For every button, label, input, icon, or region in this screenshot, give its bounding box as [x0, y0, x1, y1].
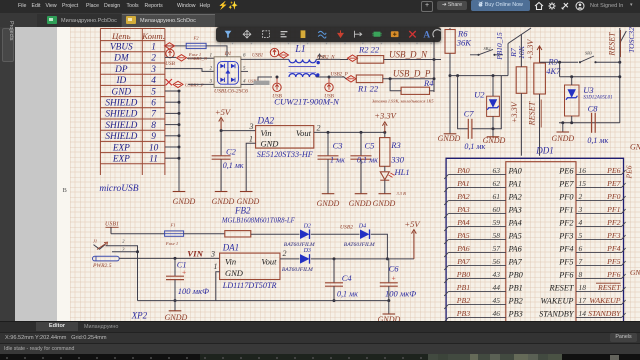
wire RESET vertical right — [620, 28, 627, 123]
wire down to C2 — [220, 131, 222, 156]
svg-text:F1: F1 — [169, 222, 175, 227]
svg-text:R9: R9 — [547, 57, 558, 67]
svg-text:PA6: PA6 — [508, 244, 523, 253]
pin row PB3/STANDBY — [444, 309, 625, 322]
svg-text:45: 45 — [493, 296, 501, 305]
harness entry before R1 — [326, 76, 356, 82]
wire DA2 GND to ground — [246, 143, 255, 191]
pin row PA7/PF5 — [444, 257, 625, 270]
svg-text:PE6: PE6 — [606, 166, 621, 175]
svg-text:U2: U2 — [474, 90, 485, 100]
svg-text:PB0: PB0 — [456, 270, 471, 279]
svg-text:DP: DP — [114, 65, 128, 75]
svg-text:Vout: Vout — [261, 256, 277, 266]
svg-text:GNDD: GNDD — [630, 268, 640, 277]
svg-text:PA4: PA4 — [508, 218, 522, 227]
wire D1 pin4 to L1 lower — [241, 77, 272, 84]
no-ERC cross ID — [166, 79, 172, 85]
svg-text:GNDD: GNDD — [373, 199, 396, 208]
svg-text:GNDD: GNDD — [483, 136, 506, 145]
svg-text:3: 3 — [210, 250, 215, 259]
wire to R4 — [390, 79, 434, 91]
ground GNDD (U3) — [551, 123, 574, 143]
voltage regulator DA1 — [210, 242, 287, 279]
resistor R1 — [356, 75, 383, 93]
svg-text:PE7: PE7 — [558, 179, 574, 188]
svg-text:PF1: PF1 — [606, 205, 621, 214]
svg-text:USBLC6-2SC6: USBLC6-2SC6 — [214, 89, 248, 95]
svg-text:+3.3V: +3.3V — [510, 101, 519, 123]
svg-text:D3: D3 — [303, 248, 311, 254]
power port USB (under L1 right) — [324, 76, 334, 100]
diode D3 — [282, 248, 313, 273]
svg-text:PF3: PF3 — [606, 231, 621, 240]
wire U3 branch — [560, 62, 622, 78]
resistor R2 — [357, 45, 384, 64]
power port +5V (right) — [404, 219, 421, 259]
svg-text:ID: ID — [115, 76, 126, 86]
capacitor C1 — [166, 258, 209, 302]
svg-text:6: 6 — [151, 99, 156, 109]
pin row PA5/PF3 — [444, 231, 625, 244]
ground GNDD (rail left) — [165, 301, 188, 323]
svg-text:S3D12A05L01: S3D12A05L01 — [583, 96, 612, 101]
svg-text:+5V: +5V — [404, 219, 421, 229]
svg-text:DM: DM — [113, 54, 130, 64]
svg-text:PF4: PF4 — [606, 244, 621, 253]
svg-text:GND: GND — [261, 139, 280, 149]
svg-text:PA5: PA5 — [508, 231, 522, 240]
wire J1 pins — [106, 246, 140, 301]
protection diode U3 — [565, 77, 613, 123]
svg-text:STANDBY: STANDBY — [539, 309, 575, 318]
power port USB (upper) — [165, 49, 175, 67]
wire FB2 to D2 — [251, 233, 300, 235]
ground GNDD (table) — [173, 192, 196, 206]
voltage regulator DA2 — [249, 116, 321, 149]
resistor R3 — [380, 132, 405, 166]
resistor R6 — [445, 28, 472, 53]
svg-text:R4: R4 — [423, 78, 434, 88]
svg-text:4K7: 4K7 — [546, 66, 561, 76]
wire bottom loop (U3/C8) — [559, 121, 620, 124]
svg-text:5: 5 — [579, 231, 583, 240]
svg-text:7: 7 — [151, 110, 156, 120]
svg-text:DD1: DD1 — [535, 146, 554, 156]
wire R7 to DD1 (+3.3V) — [520, 93, 522, 155]
wire loop U2/C7 — [458, 76, 502, 131]
diode D4 — [344, 223, 375, 248]
svg-text:PF4: PF4 — [558, 244, 573, 253]
svg-text:BAT60JFILM: BAT60JFILM — [282, 267, 313, 273]
wire R6 down to GNDD — [449, 53, 452, 133]
svg-text:PA2: PA2 — [508, 192, 522, 201]
svg-text:R1 22: R1 22 — [357, 83, 379, 93]
svg-text:PA5: PA5 — [456, 231, 470, 240]
wire vertical (USB_D bus) — [433, 40, 436, 92]
svg-text:USBB5_N: USBB5_N — [188, 56, 208, 61]
svg-text:2: 2 — [579, 192, 583, 201]
svg-text:F2: F2 — [192, 35, 199, 40]
net label RESET (vertical, right) — [608, 30, 621, 57]
power port USB (under L1 left) — [272, 76, 282, 100]
svg-text:63: 63 — [493, 166, 501, 175]
svg-text:RESET: RESET — [528, 100, 537, 126]
svg-text:PE7: PE7 — [606, 179, 622, 188]
svg-text:WAKEUP: WAKEUP — [540, 296, 573, 305]
connector J1 PWR2.5 — [92, 239, 125, 270]
svg-text:C8: C8 — [588, 103, 599, 113]
svg-text:PA0: PA0 — [456, 166, 470, 175]
svg-text:+: + — [182, 268, 187, 277]
svg-text:PF5: PF5 — [606, 257, 621, 266]
svg-text:HL1: HL1 — [394, 167, 410, 177]
wire F2 to D1 — [206, 46, 227, 57]
svg-text:PA2: PA2 — [456, 192, 470, 201]
pin row PA4/PF2 — [444, 218, 625, 231]
power port +3.3V (DA2 out) — [374, 111, 397, 133]
svg-text:PF6: PF6 — [558, 270, 574, 279]
wire +3.3V rail to SB3 — [540, 61, 579, 64]
power port +5V — [215, 107, 232, 132]
DD1 outer box — [446, 158, 623, 321]
svg-text:SHIELD: SHIELD — [105, 99, 137, 109]
svg-text:14: 14 — [579, 309, 587, 318]
harness entry (L1 top) — [279, 52, 289, 58]
power port USB1 — [105, 222, 119, 234]
svg-text:5: 5 — [151, 87, 156, 97]
svg-text:USB: USB — [324, 94, 334, 100]
resistor R7 — [509, 35, 527, 94]
svg-text:59: 59 — [493, 218, 501, 227]
svg-text:6: 6 — [579, 244, 583, 253]
wire +5V node rail — [311, 257, 414, 260]
svg-text:57: 57 — [493, 244, 501, 253]
svg-text:VIN: VIN — [187, 248, 203, 258]
capacitor C5 — [351, 132, 379, 193]
svg-text:PA7: PA7 — [508, 257, 523, 266]
svg-text:C4: C4 — [342, 273, 353, 283]
capacitor C7 — [464, 110, 486, 151]
svg-text:J1: J1 — [93, 239, 97, 244]
svg-text:44: 44 — [493, 283, 501, 292]
wire DP to D1 pin2 — [165, 69, 214, 72]
svg-text:SHIELD: SHIELD — [105, 132, 137, 142]
svg-text:GNDD: GNDD — [438, 134, 461, 143]
svg-text:PA0: PA0 — [508, 166, 523, 175]
svg-text:PB2: PB2 — [508, 296, 523, 305]
svg-text:GNDD: GNDD — [165, 313, 188, 321]
svg-text:USB2: USB2 — [340, 225, 353, 231]
svg-text:8: 8 — [151, 121, 156, 131]
ground GNDD (C3) — [317, 194, 340, 208]
svg-text:PB0: PB0 — [508, 270, 524, 279]
svg-text:36K: 36K — [456, 37, 473, 47]
capacitor C8 — [587, 103, 608, 145]
pin row PB0/PF6 — [444, 270, 625, 283]
svg-text:3: 3 — [249, 122, 254, 131]
svg-text:PB2: PB2 — [456, 296, 471, 305]
svg-text:1: 1 — [214, 262, 218, 271]
svg-text:GND: GND — [112, 87, 132, 97]
svg-text:USBB3_P: USBB3_P — [185, 83, 204, 88]
no-ERC marker VBUS — [165, 43, 175, 49]
svg-text:43: 43 — [493, 270, 501, 279]
svg-text:PB1: PB1 — [456, 283, 471, 292]
svg-text:1: 1 — [210, 54, 212, 59]
wire ground rail (bottom) — [138, 300, 389, 302]
svg-text:SHIELD: SHIELD — [105, 121, 137, 131]
fuse F1 — [165, 222, 184, 246]
svg-text:PA6: PA6 — [456, 244, 470, 253]
svg-text:C7: C7 — [464, 110, 475, 119]
svg-text:2: 2 — [151, 54, 156, 64]
svg-text:100 мкФ: 100 мкФ — [178, 286, 209, 296]
svg-text:62: 62 — [493, 179, 501, 188]
svg-text:17: 17 — [579, 296, 587, 305]
svg-text:USB_D_N: USB_D_N — [389, 49, 428, 59]
capacitor C6 — [380, 259, 416, 302]
capacitor C3 — [318, 132, 346, 193]
svg-text:STANDBY: STANDBY — [588, 309, 622, 318]
svg-text:11: 11 — [149, 155, 158, 165]
ground GNDD (HL1) — [373, 194, 396, 208]
LED HL1 — [380, 166, 409, 196]
svg-text:15: 15 — [579, 179, 587, 188]
svg-text:330: 330 — [390, 154, 405, 164]
svg-text:PB3: PB3 — [456, 309, 471, 318]
capacitor C2 — [212, 147, 244, 192]
svg-text:1 мк: 1 мк — [330, 155, 345, 164]
svg-text:61: 61 — [493, 192, 501, 201]
svg-text:PA4: PA4 — [456, 218, 470, 227]
svg-text:SE5120ST33-HF: SE5120ST33-HF — [257, 150, 314, 159]
wire D4 to +5V node — [371, 234, 389, 260]
svg-text:0,1 мк: 0,1 мк — [337, 289, 358, 298]
svg-text:PB3: PB3 — [508, 309, 523, 318]
wire DA2 Vout rail +3.3V — [314, 131, 387, 134]
svg-text:Vin: Vin — [225, 256, 236, 266]
svg-text:1: 1 — [151, 43, 156, 53]
wire PB10 vertical + diagonal — [508, 28, 531, 76]
svg-text:PE6: PE6 — [558, 166, 574, 175]
pin row PB1/RESET — [444, 283, 625, 296]
svg-text:U3: U3 — [583, 85, 593, 95]
harness entry before R2 — [340, 55, 358, 61]
pin row PB2/WAKEUP — [444, 296, 625, 309]
svg-text:2: 2 — [317, 124, 321, 133]
svg-text:C6: C6 — [389, 264, 400, 274]
svg-text:3: 3 — [150, 65, 156, 75]
pin row PA2/PF0 — [444, 192, 625, 205]
svg-text:XP2: XP2 — [131, 311, 148, 321]
ground GNDD (C2) — [212, 192, 235, 206]
svg-text:RESET: RESET — [597, 283, 621, 292]
svg-text:BAT60JFILM: BAT60JFILM — [284, 242, 315, 248]
svg-text:PE6: PE6 — [625, 165, 634, 179]
wire USB1 to F1 — [111, 233, 165, 235]
protection diode U2 — [474, 76, 499, 137]
wire VIN rail — [119, 257, 219, 260]
wire ground bus from table pins — [165, 90, 181, 192]
switch SB3 — [579, 51, 621, 64]
svg-text:GNDD: GNDD — [317, 199, 340, 208]
inductor L1 — [289, 54, 341, 77]
svg-text:D1: D1 — [224, 51, 232, 57]
svg-text:9: 9 — [151, 132, 156, 142]
harness entry USBB3_P — [173, 81, 214, 87]
svg-text:+5V: +5V — [215, 107, 232, 117]
svg-text:Vout: Vout — [296, 128, 312, 138]
svg-text:PF2: PF2 — [558, 218, 573, 227]
svg-text:PF5: PF5 — [558, 257, 573, 266]
svg-text:+: + — [391, 273, 396, 282]
wire R9 to DD1 (RESET) — [540, 94, 542, 156]
pin row PA0/PE6 — [444, 166, 625, 179]
svg-text:GNDD: GNDD — [630, 143, 640, 152]
svg-text:Vin: Vin — [261, 128, 272, 138]
svg-text:MGLB1608M601T0R8-LF: MGLB1608M601T0R8-LF — [221, 217, 296, 224]
svg-text:USB: USB — [272, 94, 282, 100]
svg-text:GNDD: GNDD — [551, 134, 574, 143]
svg-text:0,1 мк: 0,1 мк — [587, 136, 608, 145]
svg-text:microUSB: microUSB — [99, 184, 138, 194]
svg-text:EXP: EXP — [112, 155, 130, 165]
svg-text:3.3 В: 3.3 В — [397, 191, 407, 196]
svg-text:100 мкФ: 100 мкФ — [385, 288, 416, 298]
svg-text:D2: D2 — [303, 224, 311, 230]
svg-text:RESET: RESET — [549, 283, 575, 292]
svg-text:+3.3V: +3.3V — [526, 39, 535, 61]
svg-text:DA2: DA2 — [257, 116, 275, 126]
svg-text:PA7: PA7 — [456, 257, 471, 266]
svg-text:+3.3V: +3.3V — [374, 111, 397, 121]
svg-text:R2 22: R2 22 — [358, 45, 380, 55]
svg-text:C2: C2 — [226, 147, 237, 157]
svg-text:0,1 мк: 0,1 мк — [357, 155, 378, 164]
svg-text:46: 46 — [493, 309, 501, 318]
svg-text:4: 4 — [579, 218, 583, 227]
svg-text:PA3: PA3 — [456, 205, 470, 214]
power port +3.3V (top) — [526, 39, 542, 63]
svg-text:PF0: PF0 — [606, 192, 621, 201]
fuse F2 — [186, 35, 206, 57]
svg-text:Fuse 1: Fuse 1 — [165, 241, 178, 246]
svg-text:R3: R3 — [390, 140, 400, 150]
ground GNDD (DA2) — [237, 192, 260, 206]
wire D1 pin6 to L1 (net USB1) — [241, 58, 289, 60]
svg-text:60: 60 — [493, 205, 501, 214]
harness entry USBB5_N — [177, 55, 208, 61]
diode D2 — [284, 224, 315, 248]
svg-text:PA1: PA1 — [508, 179, 522, 188]
svg-text:D4: D4 — [358, 223, 366, 230]
svg-text:PF0: PF0 — [558, 192, 574, 201]
wire DA1 Vout rail — [280, 258, 300, 260]
wire D2 to D4 (net USB2) — [311, 233, 360, 235]
svg-text:0,1 мк: 0,1 мк — [223, 161, 244, 170]
wire horizontal to U2 branch — [450, 74, 508, 77]
svg-text:USB: USB — [165, 61, 175, 67]
pin row PA3/PF1 — [444, 205, 625, 218]
svg-text:A: A — [423, 30, 430, 40]
svg-text:2: 2 — [283, 249, 287, 258]
ground GNDD (right edge, clipped) — [630, 143, 640, 152]
svg-text:8: 8 — [579, 270, 583, 279]
svg-text:16: 16 — [579, 166, 587, 175]
svg-text:PA1: PA1 — [456, 179, 470, 188]
svg-text:GNDD: GNDD — [173, 197, 196, 206]
svg-text:FB2: FB2 — [234, 205, 251, 215]
wire R1 to USB_D_P — [383, 77, 434, 80]
svg-text:GNDD: GNDD — [212, 197, 235, 206]
floating toolbar — [216, 27, 441, 42]
IC body DD1 (pin name box) — [506, 162, 576, 321]
svg-text:PF6: PF6 — [606, 270, 621, 279]
svg-text:3: 3 — [578, 205, 583, 214]
wire DA1 GND down — [216, 272, 220, 301]
resistor R4 — [401, 78, 434, 95]
svg-text:Цепь: Цепь — [111, 31, 131, 41]
wire VBUS — [165, 45, 186, 47]
svg-text:7: 7 — [579, 257, 583, 266]
svg-text:LD1117DT50TR: LD1117DT50TR — [222, 281, 277, 290]
svg-text:PB1: PB1 — [508, 283, 523, 292]
svg-text:PA3: PA3 — [508, 205, 522, 214]
power port USB (L1 left) — [270, 0, 280, 57]
svg-text:Конт.: Конт. — [141, 31, 165, 41]
wire +5V to DA2 — [221, 130, 256, 132]
ground GNDD (R6) — [438, 134, 461, 143]
svg-text:BAT60JFILM: BAT60JFILM — [344, 242, 375, 248]
wire F1 to FB2 — [184, 233, 225, 235]
svg-text:RESET: RESET — [608, 32, 617, 57]
svg-text:PF1: PF1 — [558, 205, 573, 214]
svg-text:USB2_N: USB2_N — [317, 56, 335, 61]
svg-text:C3: C3 — [333, 141, 343, 151]
svg-text:GND: GND — [225, 268, 244, 278]
svg-text:PB10_15: PB10_15 — [495, 32, 504, 61]
ferrite bead FB2 — [221, 205, 296, 237]
svg-text:10: 10 — [149, 143, 159, 153]
ground GNDD (U2) — [483, 136, 506, 145]
svg-text:WAKEUP: WAKEUP — [589, 296, 620, 305]
svg-text:SB3: SB3 — [585, 51, 593, 56]
svg-text:GNDD: GNDD — [349, 199, 372, 208]
svg-text:EXP: EXP — [112, 143, 130, 153]
svg-text:USB1: USB1 — [252, 53, 263, 58]
svg-text:C5: C5 — [365, 141, 375, 151]
svg-text:DA1: DA1 — [222, 242, 240, 252]
ground GNDD (C5) — [349, 194, 372, 208]
svg-text:VBUS: VBUS — [110, 43, 133, 53]
wire DM to D1 pin1 — [165, 56, 214, 59]
resistor R9 — [534, 57, 561, 94]
connector table microUSB — [100, 29, 165, 176]
bottom bars — [0, 321, 640, 333]
svg-text:4: 4 — [151, 76, 156, 86]
svg-text:PF3: PF3 — [558, 231, 573, 240]
svg-text:USB1: USB1 — [105, 222, 119, 228]
ground GNDD (rail right) — [378, 301, 401, 324]
svg-text:1: 1 — [249, 135, 253, 144]
svg-text:PF2: PF2 — [606, 218, 621, 227]
diode array D1 — [210, 51, 248, 87]
svg-text:18: 18 — [579, 283, 587, 292]
pin row PA1/PE7 — [444, 179, 625, 192]
svg-text:58: 58 — [493, 231, 501, 240]
svg-text:SHIELD: SHIELD — [105, 110, 137, 120]
